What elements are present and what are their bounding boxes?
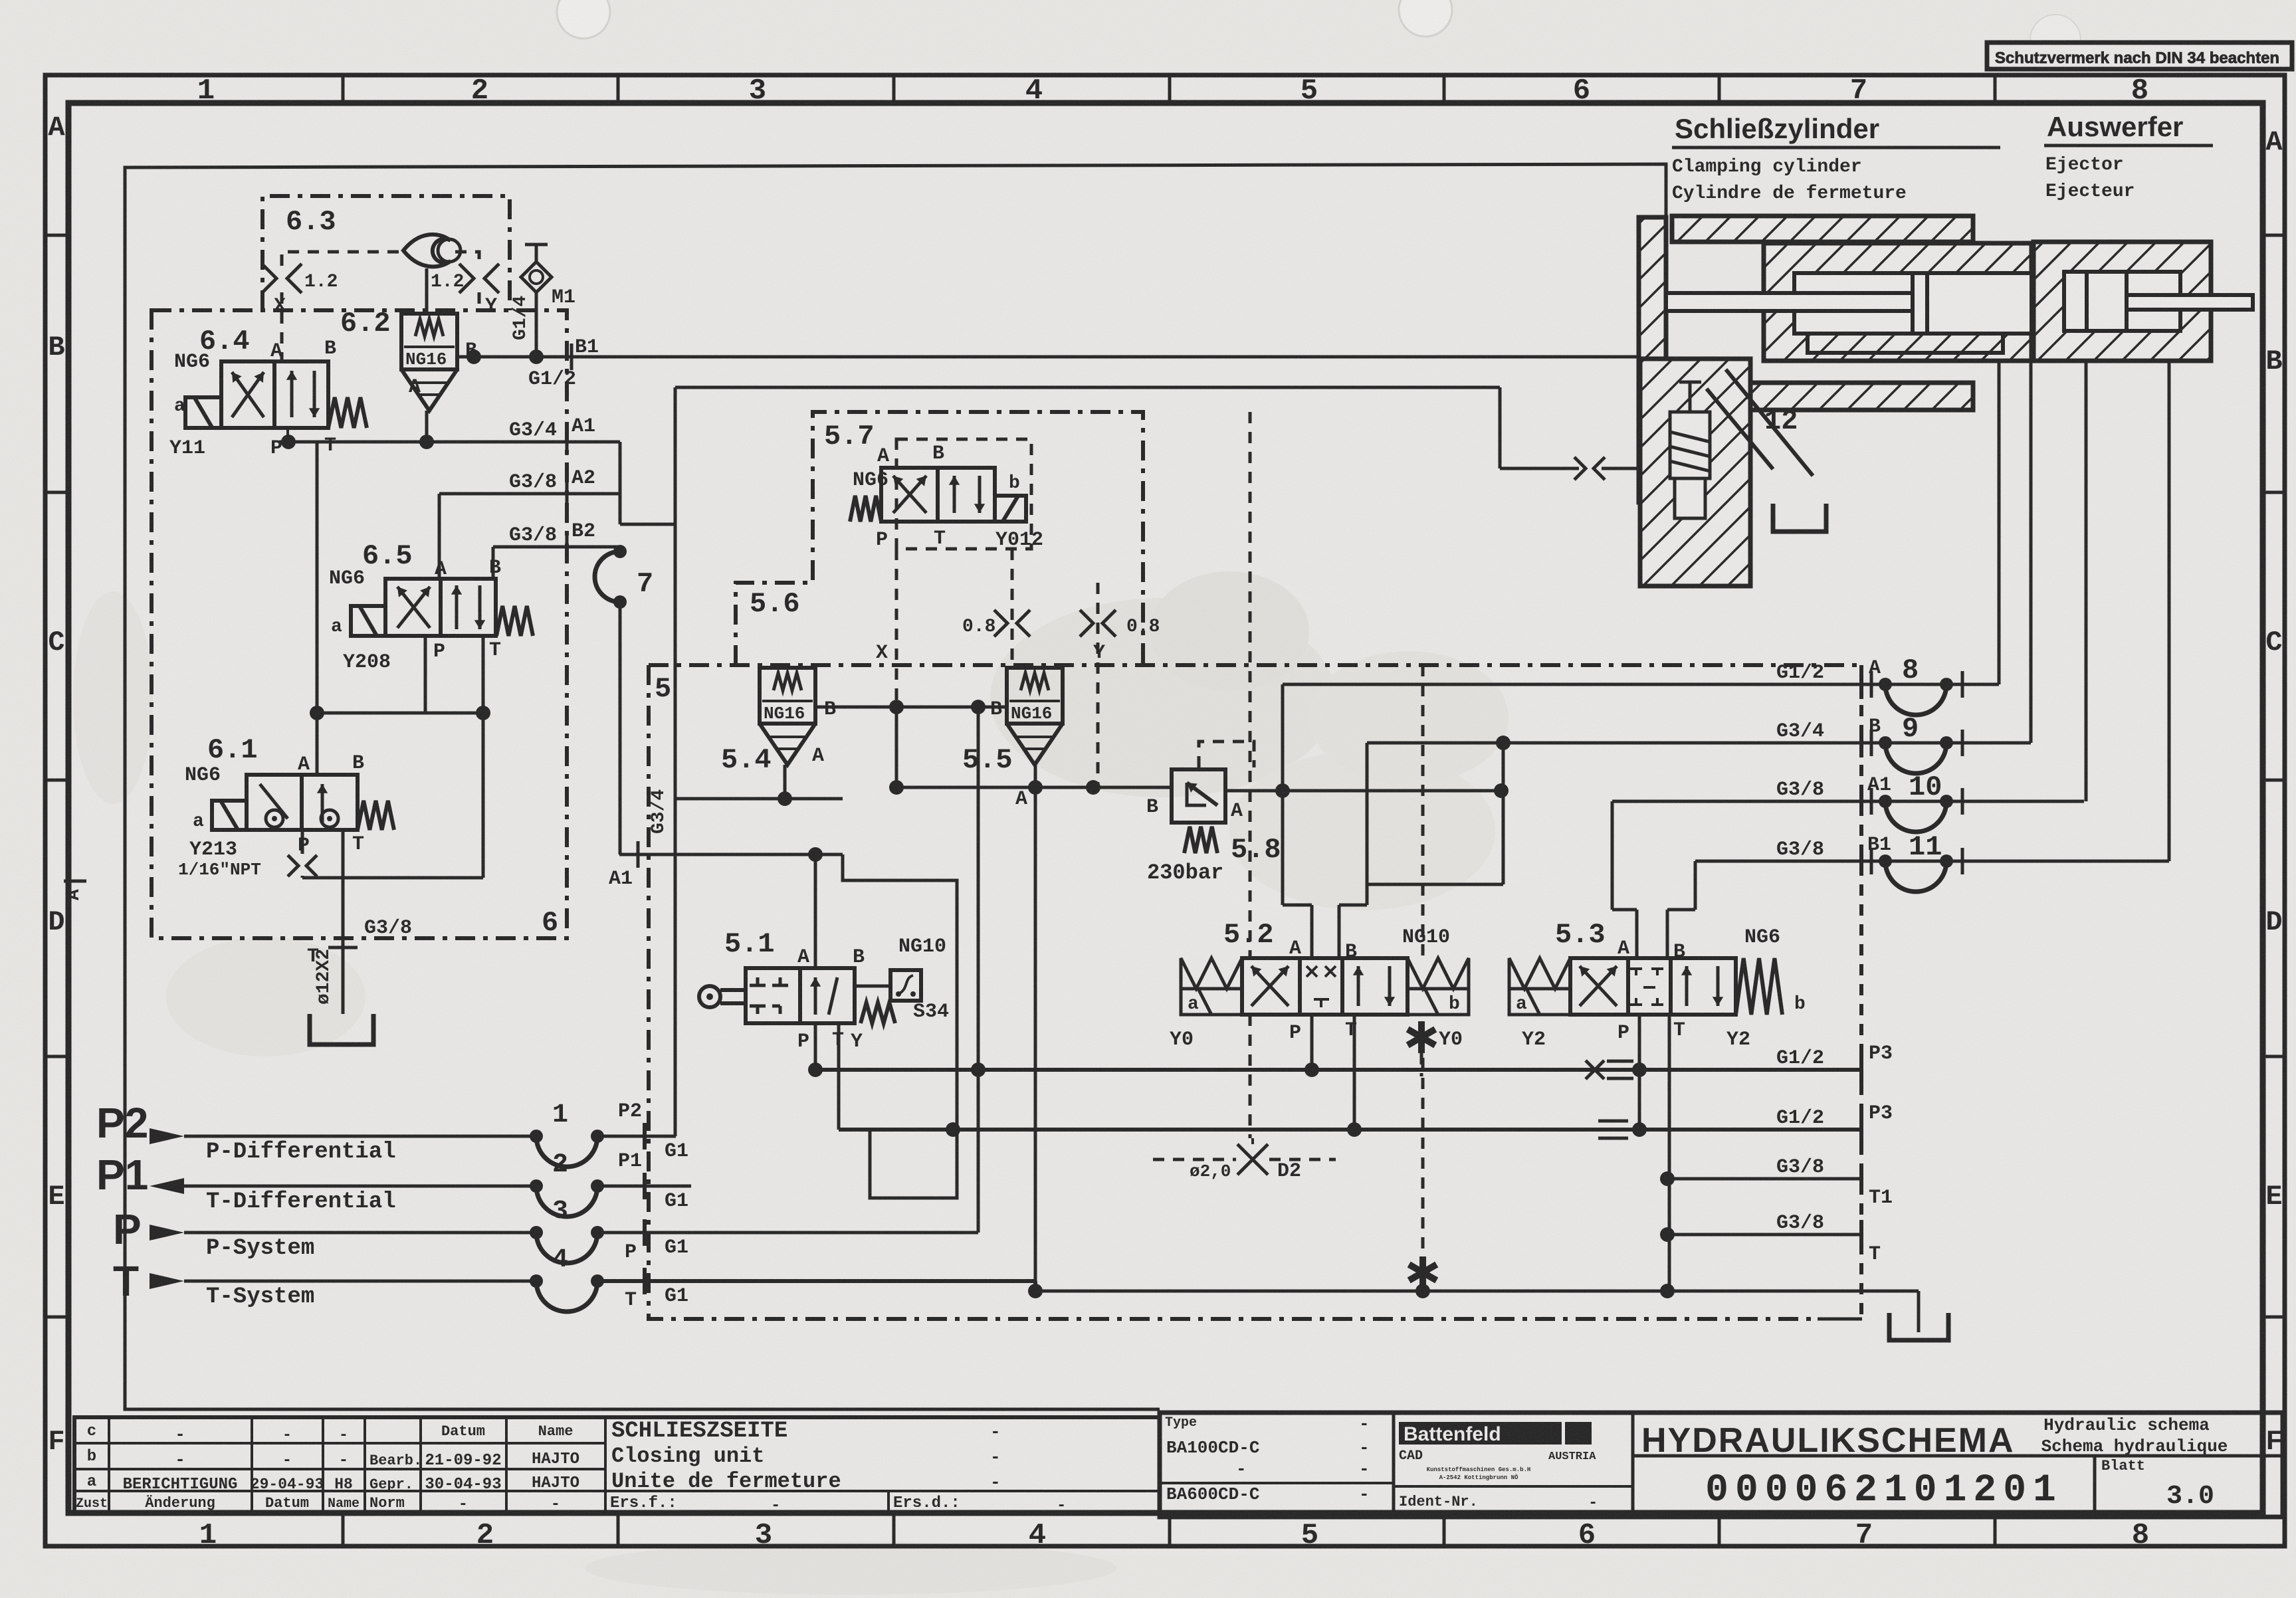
check valve 6.3 [403, 235, 451, 266]
solenoid 6.1 [212, 801, 247, 830]
manifold right boundary [1859, 665, 1863, 1319]
directional valve 6.1 Y213 [247, 775, 358, 830]
ejector cylinder body [2034, 242, 2211, 361]
tank line bottom [1035, 1290, 1919, 1293]
port line 9 G3/4 B [1367, 742, 2031, 745]
schema title cell [1633, 1454, 2283, 1458]
wire 5.4 B [889, 700, 904, 714]
top coordinate band ticks [342, 75, 345, 103]
gauge M1 [521, 262, 552, 292]
wire B1 line G1/2 [457, 355, 1639, 359]
tank symbol bottom right [1889, 1313, 1948, 1340]
cartridge valve 6.2 [401, 314, 457, 369]
ejector rod [2127, 295, 2253, 310]
wire A1 line G3/4 [279, 441, 620, 444]
port line 10 G3/8 A1 [1612, 800, 2084, 803]
wire 5.3 T down [1668, 1015, 1671, 1295]
wire 5.4 A down [783, 765, 787, 799]
wire X to block [1583, 381, 1586, 385]
wire 6.5 B up to B2 [492, 547, 495, 579]
wire 6.1 T down to tank [342, 830, 345, 1014]
clamping cylinder body [1764, 243, 2032, 361]
wire 5.5 A down [1034, 765, 1037, 787]
wire node line 6 [317, 712, 483, 715]
sleeve bar [1808, 334, 2003, 353]
wire 6.5 A up [438, 494, 441, 579]
prop solenoid 5.2 left [1181, 958, 1242, 989]
plug star 5.2 [1418, 1021, 1425, 1053]
pilot X to line [895, 549, 898, 707]
spring 5.3 right [1736, 958, 1782, 1015]
wire 5.1 T down [837, 1023, 841, 1130]
wire 5.8 A out [1226, 789, 1501, 793]
wire 6.5 P down [424, 636, 427, 713]
cartridge valve 5.5 [1007, 668, 1063, 724]
spring 6.1 [358, 801, 394, 830]
proportional valve 5.3 [1570, 958, 1736, 1015]
wire 6.4 P down [286, 428, 289, 442]
wire A1 entry line [619, 853, 843, 856]
Schutzvermerk DIN 34 note [1987, 43, 2292, 69]
punch hole top left [557, 0, 610, 39]
drawing title cell [605, 1490, 1160, 1492]
directional valve 6.5 Y208 [385, 579, 496, 636]
riser P2 G3/4 [674, 387, 677, 1136]
crossing marks P3-1 [1586, 1060, 1604, 1079]
piston clamping [1913, 273, 1927, 334]
pilot dashed box 5.7 [896, 439, 1031, 549]
Blatt cell [2093, 1456, 2097, 1517]
clamping cylinder left flange [1639, 217, 1666, 502]
wire 6.4T riser to 6.1A [316, 442, 319, 775]
wire A2 line G3/8 [439, 492, 620, 496]
wire A1 loop to T line [843, 854, 957, 1198]
wire cylinder port lines [1998, 361, 2001, 684]
pilot Y dashed [1096, 583, 1100, 787]
solenoid 5.7 [995, 496, 1026, 522]
port line T [1667, 1233, 1861, 1237]
relief valve 5.8 [1172, 769, 1225, 823]
drain channel 12 [1726, 369, 1813, 476]
spring 6.4 [328, 397, 367, 428]
tank symbol group 6 [310, 1014, 373, 1045]
Battenfeld logo [1399, 1422, 1562, 1445]
wire P supply riser [977, 707, 980, 1070]
group 5 boundary [649, 665, 1818, 1319]
throttle 6.1 P [301, 830, 304, 854]
spring 5.1 [861, 1003, 895, 1023]
wire line y1202 [675, 797, 843, 801]
wire 5.3 P down [1638, 1015, 1641, 1123]
boundary 5.6 5.7 [736, 412, 1143, 665]
wire 5.2 B riser [1366, 743, 1369, 905]
mechanism block 12 [1640, 359, 1750, 586]
cartridge valve 5.4 [760, 668, 815, 724]
throttle X cylinder [1574, 457, 1586, 480]
wire line to relief 5.8 [896, 786, 1172, 789]
plug star bottom [1419, 1256, 1426, 1288]
port 7 loop [613, 545, 627, 558]
tank symbol 12 [1773, 504, 1826, 532]
port A tick on frame [64, 880, 86, 883]
pilot line X dash-dot [649, 663, 1861, 667]
directional valve 6.4 Y11 [221, 361, 328, 428]
spring 5.8 [1184, 827, 1217, 853]
wire loop port9 [1496, 736, 1511, 750]
hand valve 5.1 [746, 968, 855, 1023]
prop solenoid 5.3 left [1509, 958, 1570, 989]
port line T1 [1667, 1177, 1861, 1181]
wire 5.3 A riser [1611, 801, 1614, 910]
S34 switch [890, 970, 921, 1001]
port line 8 G1/2 A [1283, 683, 1999, 686]
throttle X 1.2 [262, 264, 276, 293]
wire 5.2 T down [1353, 1015, 1356, 1130]
spring 5.7 [850, 496, 881, 522]
wire loop7 down to A1 entry [619, 602, 622, 854]
wire 5.1 A up [814, 854, 817, 968]
ejector piston [2087, 272, 2127, 331]
directional valve 5.7 Y012 [881, 468, 995, 522]
wire 5.1 P down [814, 1023, 817, 1070]
wire 6.5 T down [482, 636, 485, 713]
wire 5.2 P down [1310, 1015, 1314, 1070]
lever 5.1 [699, 986, 720, 1007]
orifice D2 [1153, 1158, 1236, 1161]
punch hole top right [1399, 0, 1452, 37]
proportional valve 5.2 [1242, 958, 1408, 1015]
piston rod clamping [1666, 293, 1915, 311]
group 6 boundary box [152, 310, 567, 938]
wire 5.2 A riser [1281, 684, 1285, 905]
wire 5.3 B riser [1694, 861, 1697, 910]
bottom coordinate band ticks [342, 1513, 345, 1546]
wire 6.2 A down [425, 411, 429, 442]
crossing marks P3-2 [1598, 1120, 1628, 1123]
wire A1 riser [619, 442, 622, 524]
pilot dashed box 6.3 [282, 252, 479, 266]
revision table [74, 1417, 1160, 1513]
wire P riser [977, 1070, 980, 1233]
solenoid 6.5 [351, 606, 385, 636]
wire 5.5 B [815, 706, 1007, 709]
port line P3 first [815, 1068, 1861, 1072]
throttle Y 1.2 [459, 264, 474, 293]
pilot to D2 dashed [1249, 412, 1252, 958]
wire 5.5 A to P3 riser [1034, 787, 1037, 1291]
drawing area boundary [125, 164, 1666, 1409]
clamping cylinder top bar [1672, 216, 1973, 242]
title block right [1160, 1413, 2283, 1517]
spring 6.5 [496, 606, 533, 636]
pilot box 5.8 [1199, 742, 1254, 767]
throttle 0.8 left [994, 610, 1007, 637]
port line 11 G3/8 B1 [1695, 860, 2169, 863]
prop solenoid 5.2 right [1408, 958, 1469, 989]
wire node to 6.1 P loop [482, 713, 485, 878]
port line P3 second [839, 1128, 1861, 1132]
solenoid 6.4 [185, 397, 221, 428]
wire A1 to cylinder via P2 riser [675, 386, 1500, 389]
valve group 6.3 boundary [262, 196, 510, 310]
throttle 0.8 right [1080, 610, 1093, 637]
clamping cylinder bottom bar [1672, 383, 1973, 410]
wire T to tank line [1028, 1284, 1043, 1298]
